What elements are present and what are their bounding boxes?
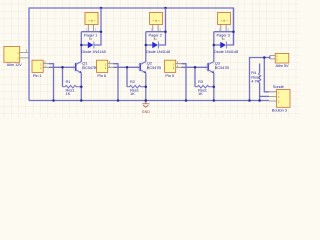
svg-text:1K: 1K	[66, 91, 71, 96]
svg-text:Bouton 3: Bouton 3	[272, 107, 288, 112]
svg-text:Pin 6: Pin 6	[97, 73, 106, 78]
svg-text:4.7K: 4.7K	[251, 79, 259, 84]
svg-text:Alim 5V: Alim 5V	[276, 63, 289, 68]
svg-text:GND: GND	[142, 110, 150, 114]
svg-text:1K: 1K	[130, 91, 135, 96]
svg-text:Diode 1N4148: Diode 1N4148	[81, 49, 106, 54]
svg-text:1K: 1K	[198, 91, 203, 96]
svg-text:Pin 1: Pin 1	[33, 73, 42, 78]
svg-text:Pager 2: Pager 2	[149, 32, 163, 37]
svg-text:BC547B: BC547B	[215, 65, 230, 70]
svg-text:Pager 1: Pager 1	[84, 32, 98, 37]
svg-text:Pin 5: Pin 5	[165, 73, 174, 78]
svg-text:Pager 3: Pager 3	[217, 32, 231, 37]
svg-text:Sonde: Sonde	[273, 84, 285, 89]
svg-text:Alim 12V: Alim 12V	[7, 62, 22, 67]
svg-text:BC547B: BC547B	[82, 65, 97, 70]
svg-text:Diode 1N4148: Diode 1N4148	[214, 49, 239, 54]
svg-text:BC547B: BC547B	[147, 65, 162, 70]
svg-text:Diode 1N4148: Diode 1N4148	[146, 49, 171, 54]
